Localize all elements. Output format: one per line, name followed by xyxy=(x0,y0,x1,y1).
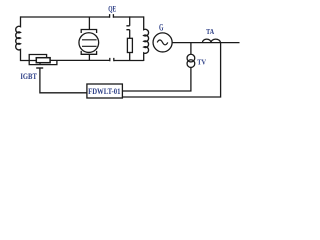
wire generator output xyxy=(172,42,239,44)
wire TV tap xyxy=(190,43,192,55)
IGBT bypass loop (outer rectangle) xyxy=(29,55,57,65)
exciter brush bracket top xyxy=(81,30,96,34)
inductor L2 (generator field winding, right coil) xyxy=(144,16,149,61)
wire bottom bus left segment xyxy=(50,59,110,61)
exciter armature bars xyxy=(82,40,97,47)
wire top bus left segment xyxy=(21,16,110,18)
exciter brush bracket bottom xyxy=(81,51,96,54)
wire gate to FDWLT-01 xyxy=(40,68,87,93)
inductor L1 (exciter field winding, left coil) xyxy=(16,16,37,60)
svg-text:IGBT: IGBT xyxy=(20,71,37,81)
exciter machine top lead xyxy=(88,17,90,30)
svg-text:FDWLT-01: FDWLT-01 xyxy=(88,87,120,96)
voltage transformer TV winding 1 xyxy=(187,54,195,62)
breaker QE bottom contact ticks xyxy=(110,58,114,61)
voltage transformer TV winding 2 xyxy=(187,60,195,68)
wire top bus right segment xyxy=(113,16,143,18)
IGBT gate lead xyxy=(39,63,41,65)
exciter machine bottom lead xyxy=(88,54,90,60)
wire bottom bus right segment xyxy=(114,60,144,62)
wire resistor to bottom bus xyxy=(129,53,131,62)
IGBT gate crossbar xyxy=(36,67,43,69)
exciter machine body xyxy=(79,33,99,53)
svg-text:TA: TA xyxy=(206,27,214,36)
svg-text:G: G xyxy=(159,22,164,32)
FDWLT-01 controller box xyxy=(87,84,123,98)
resistor R1 (de-excitation resistor) xyxy=(127,38,132,52)
IGBT module box xyxy=(36,58,50,63)
svg-text:QE: QE xyxy=(108,5,116,14)
svg-text:TV: TV xyxy=(197,57,206,66)
de-excitation branch wire xyxy=(129,16,131,25)
breaker QE arc contact ticks xyxy=(126,26,129,30)
wire TV to FDWLT-01 xyxy=(122,67,190,91)
breaker QE top contact ticks xyxy=(110,14,114,18)
generator sine mark xyxy=(157,40,168,45)
current transformer TA humps xyxy=(202,39,220,43)
wire right drop to FDWLT-01 xyxy=(122,43,220,97)
wire contact to resistor xyxy=(129,30,131,39)
generator G body xyxy=(153,33,172,52)
